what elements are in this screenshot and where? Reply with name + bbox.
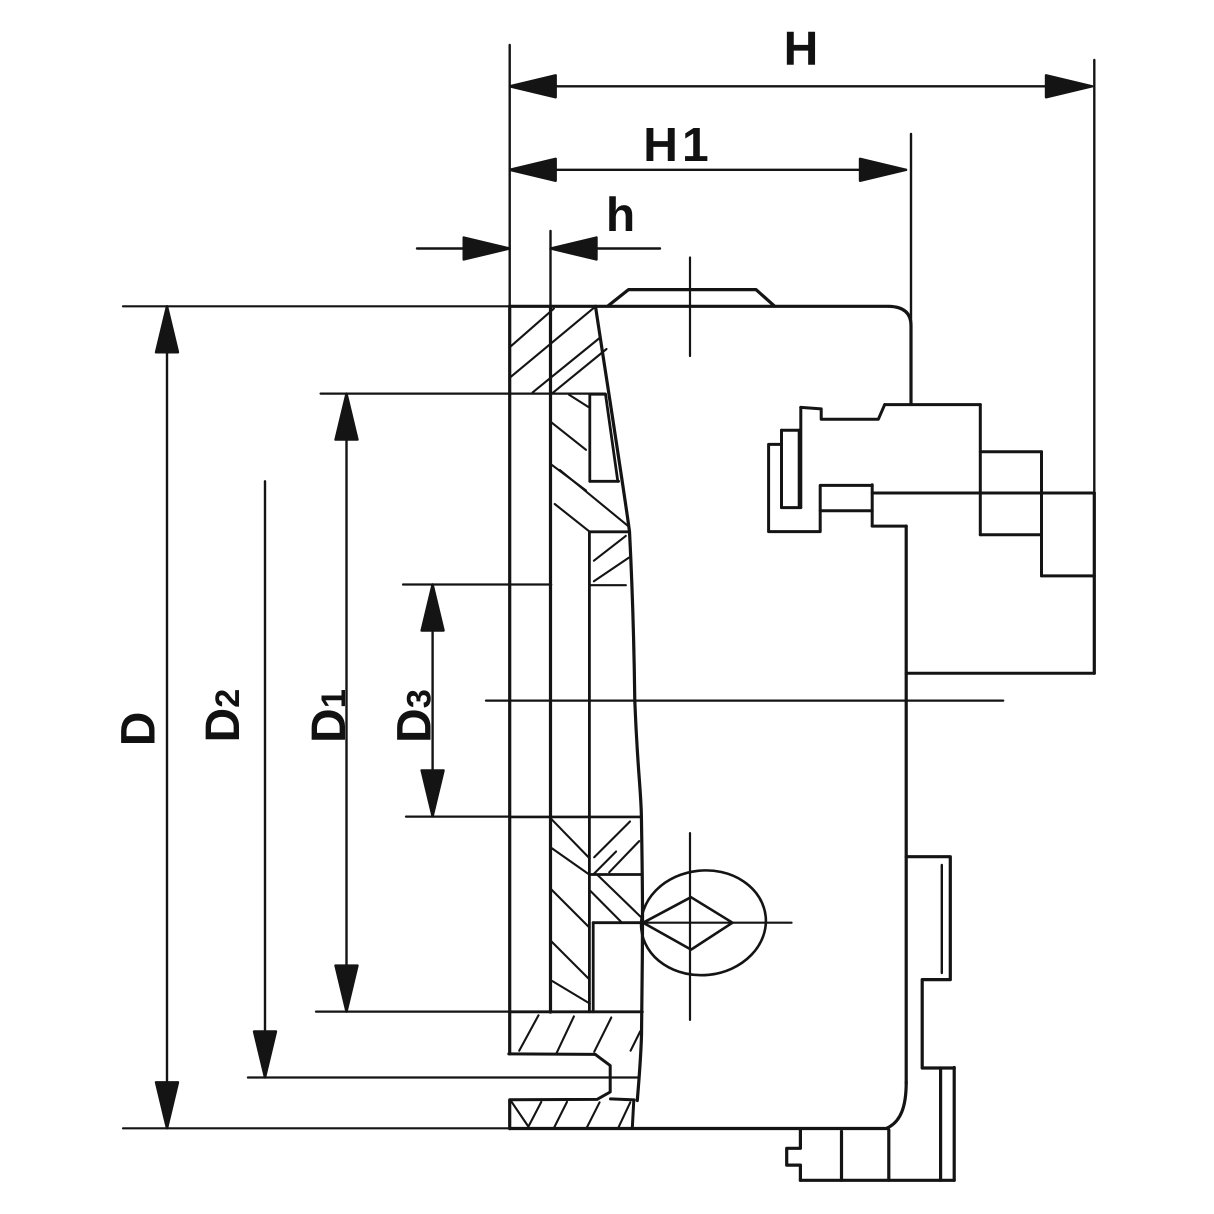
hatch counterbore upper region — [591, 875, 642, 923]
bolt hole diamond — [643, 897, 732, 949]
slideway slot top edge — [590, 393, 606, 396]
extension line D3 top — [403, 583, 551, 585]
svg-text:H: H — [784, 23, 819, 76]
svg-text:H1: H1 — [643, 119, 712, 172]
hatch slideway region — [550, 395, 629, 532]
extension line body front face H1 — [910, 134, 912, 325]
chuck bottom line — [510, 1127, 887, 1130]
bolt hole centerline horizontal — [643, 922, 792, 924]
adapter plate front face lower band edge — [508, 1100, 511, 1129]
mount boss inner vertical 1 — [840, 1132, 843, 1181]
dimension D — [156, 306, 178, 1128]
counterbore top line — [590, 873, 642, 876]
groove jog right band top — [611, 1099, 635, 1100]
body top line — [510, 306, 911, 403]
hatch flange upper band — [519, 1015, 640, 1053]
counterbore wall line — [592, 923, 595, 1012]
dimension h — [417, 238, 660, 260]
extension line D3 top right segment — [590, 584, 626, 586]
svg-text:h: h — [606, 189, 635, 242]
svg-text:D: D — [113, 712, 166, 747]
T-nut bottom 2 — [1042, 574, 1095, 577]
body bottom right corner arc — [887, 1082, 907, 1128]
jaw seat line — [872, 492, 1094, 495]
extension line D1 top — [321, 393, 606, 395]
adapter back face line — [549, 306, 552, 1012]
bolt boss centerline vertical top — [689, 258, 691, 357]
bolt hole centerline vertical — [689, 833, 691, 1020]
key step — [922, 980, 954, 1068]
dimension D2 — [254, 481, 276, 1077]
extension line D1 bottom — [316, 1010, 510, 1012]
extension line D2 bottom — [248, 1076, 638, 1078]
T-nut mid vertical — [1040, 452, 1043, 576]
dimension D1 — [336, 394, 358, 1012]
mount boss right vertical — [953, 1068, 956, 1181]
groove jog profile — [511, 1054, 611, 1099]
chuck axis centerline — [486, 699, 1003, 701]
key inner line — [941, 865, 943, 973]
jaw right edge — [1093, 493, 1096, 673]
flange band bottom line — [509, 1052, 596, 1056]
section step line — [590, 530, 629, 533]
hatch upper rear region right — [593, 822, 639, 875]
jaw slideway slot right edge — [606, 394, 618, 481]
slot bottom line — [510, 816, 641, 819]
hatch top flange region — [510, 307, 607, 394]
hatch lower rear region — [552, 890, 590, 1004]
dimension H1 — [510, 159, 906, 181]
top jaw outline — [769, 405, 981, 532]
extension line D top (body top line thin part) — [123, 305, 510, 307]
bore wall line — [588, 532, 591, 1012]
mount boss inner vertical 2 — [887, 1130, 890, 1180]
hatch mid band region — [594, 536, 629, 581]
hatch flange lower band — [512, 1102, 631, 1128]
jaw slot bottom line — [906, 672, 1094, 675]
jaw slideway slot bottom — [590, 480, 619, 483]
body face below jaw — [905, 526, 908, 1083]
lower band right edge — [632, 1100, 634, 1128]
bolt hole ellipse — [636, 864, 771, 981]
dimension D3 — [422, 585, 444, 817]
mount boss notch profile — [787, 1130, 801, 1180]
T-nut step top — [980, 450, 1041, 453]
body back step — [906, 857, 950, 979]
T-nut left vertical — [979, 405, 982, 535]
flange band top line — [510, 1010, 643, 1013]
jaw slideway slot left edge — [588, 394, 591, 481]
extension line D3 bottom thin part — [406, 815, 510, 817]
hatch upper rear region left — [552, 819, 590, 874]
counterbore pocket top edge — [593, 921, 642, 924]
mount boss left vertical — [939, 1068, 942, 1180]
adapter plate front face — [508, 306, 511, 1054]
tapered face outline — [596, 306, 643, 1100]
T-nut bottom 1 — [980, 533, 1041, 536]
dimension H — [510, 75, 1092, 97]
bolt boss bump — [608, 290, 774, 306]
extension line D bottom (thin part) — [123, 1127, 510, 1129]
extension line jaw tip H — [1093, 60, 1095, 493]
extension line left vertical (mount face) — [509, 45, 511, 306]
mount boss bottom — [800, 1179, 954, 1182]
extension line back face — [549, 231, 551, 306]
